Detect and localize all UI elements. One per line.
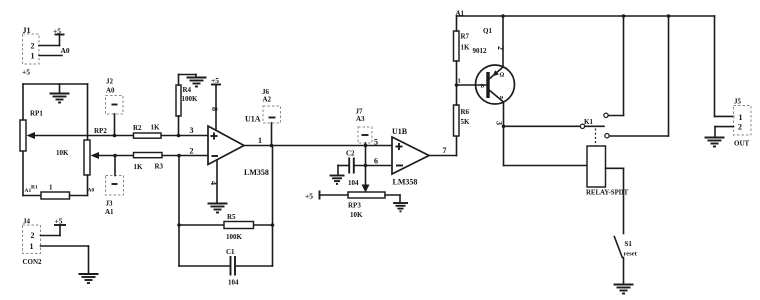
svg-text:U1B: U1B bbox=[392, 127, 408, 136]
svg-text:1: 1 bbox=[458, 78, 461, 85]
svg-text:CON2: CON2 bbox=[23, 258, 43, 266]
svg-text:2: 2 bbox=[738, 123, 742, 132]
svg-text:U1A: U1A bbox=[245, 115, 261, 124]
svg-text:A0: A0 bbox=[88, 188, 95, 194]
svg-text:7: 7 bbox=[443, 146, 447, 155]
svg-text:C1: C1 bbox=[226, 248, 235, 256]
svg-text:reset: reset bbox=[624, 251, 638, 258]
svg-text:1K: 1K bbox=[134, 163, 144, 171]
svg-text:R1: R1 bbox=[31, 185, 38, 191]
svg-text:OUT: OUT bbox=[734, 140, 750, 148]
svg-text:υ: υ bbox=[500, 95, 503, 101]
svg-text:Q1: Q1 bbox=[483, 27, 492, 35]
svg-text:2: 2 bbox=[31, 42, 35, 51]
svg-text:R5: R5 bbox=[227, 213, 236, 221]
svg-text:R4: R4 bbox=[183, 86, 192, 94]
svg-text:4: 4 bbox=[209, 181, 218, 185]
svg-text:A0: A0 bbox=[61, 46, 70, 55]
svg-text:1K: 1K bbox=[151, 124, 161, 132]
svg-text:5: 5 bbox=[374, 138, 378, 147]
svg-text:6: 6 bbox=[374, 157, 378, 166]
svg-text:K1: K1 bbox=[584, 118, 593, 126]
svg-text:10K: 10K bbox=[56, 149, 69, 157]
svg-text:1: 1 bbox=[30, 242, 34, 251]
svg-text:R7: R7 bbox=[461, 33, 470, 41]
svg-text:2: 2 bbox=[31, 231, 35, 240]
svg-text:1: 1 bbox=[49, 184, 53, 192]
svg-text:10K: 10K bbox=[350, 211, 363, 219]
svg-text:A1: A1 bbox=[105, 208, 114, 216]
svg-text:1: 1 bbox=[739, 113, 743, 122]
svg-text:RP3: RP3 bbox=[348, 202, 361, 210]
svg-text:B: B bbox=[481, 84, 485, 90]
svg-text:R2: R2 bbox=[133, 124, 142, 132]
svg-text:1: 1 bbox=[258, 136, 262, 145]
svg-text:104: 104 bbox=[228, 279, 239, 287]
svg-text:+5: +5 bbox=[305, 192, 313, 201]
svg-text:+5: +5 bbox=[22, 68, 30, 77]
svg-text:9012: 9012 bbox=[473, 47, 488, 55]
svg-text:LM358: LM358 bbox=[244, 168, 269, 177]
svg-text:R3: R3 bbox=[155, 163, 164, 171]
svg-text:J2: J2 bbox=[106, 78, 114, 86]
svg-text:J3: J3 bbox=[106, 200, 114, 208]
svg-text:3: 3 bbox=[495, 121, 504, 125]
svg-text:100K: 100K bbox=[182, 95, 199, 103]
svg-text:5K: 5K bbox=[461, 118, 471, 126]
svg-text:1K: 1K bbox=[461, 44, 471, 52]
svg-text:A0: A0 bbox=[106, 87, 115, 95]
svg-text:LM358: LM358 bbox=[393, 178, 418, 187]
svg-text:C2: C2 bbox=[346, 150, 355, 158]
svg-text:104: 104 bbox=[348, 179, 359, 187]
svg-text:J4: J4 bbox=[23, 218, 31, 226]
svg-text:RP2: RP2 bbox=[94, 127, 107, 135]
svg-text:+5: +5 bbox=[211, 76, 219, 85]
svg-text:+5: +5 bbox=[55, 217, 63, 226]
svg-text:RP1: RP1 bbox=[30, 110, 43, 118]
svg-text:2: 2 bbox=[190, 147, 194, 156]
svg-text:A2: A2 bbox=[263, 96, 272, 104]
svg-text:+5: +5 bbox=[53, 27, 61, 36]
svg-text:S1: S1 bbox=[625, 240, 633, 248]
svg-text:Ω: Ω bbox=[500, 73, 505, 79]
svg-text:1: 1 bbox=[31, 52, 35, 61]
svg-text:R6: R6 bbox=[461, 108, 470, 116]
svg-text:3: 3 bbox=[190, 126, 194, 135]
svg-text:A3: A3 bbox=[356, 115, 365, 123]
svg-text:100K: 100K bbox=[226, 233, 243, 241]
svg-text:8: 8 bbox=[210, 107, 219, 111]
svg-text:RELAY-SPDT: RELAY-SPDT bbox=[586, 190, 629, 197]
svg-text:2: 2 bbox=[496, 46, 505, 50]
svg-text:J5: J5 bbox=[734, 98, 742, 106]
